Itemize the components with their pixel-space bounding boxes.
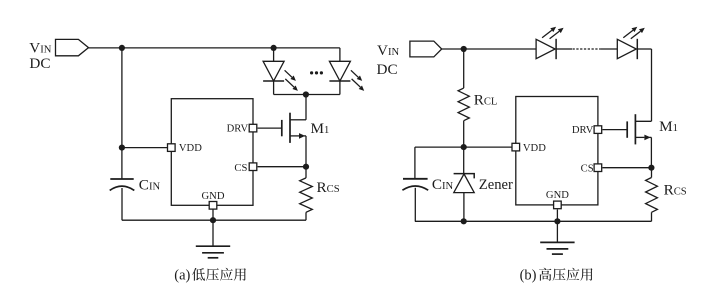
wire to ground symbol (b) bbox=[556, 221, 558, 242]
capacitor CIN (b) bbox=[402, 179, 428, 190]
pin CS (b) bbox=[594, 164, 602, 172]
transistor M1 (a) source arrow bbox=[290, 133, 305, 139]
transistor M1 (b) gate bar bbox=[626, 121, 628, 137]
svg-text:(a): (a) bbox=[174, 268, 190, 284]
transistor M1 (b) source arrow bbox=[635, 135, 650, 141]
node CS junction (a) bbox=[303, 164, 309, 170]
wire LED D1 to bottom rail (a) bbox=[273, 81, 275, 95]
wire RCL to VDD rail (b) bbox=[463, 121, 465, 147]
node VDD junction (b) bbox=[461, 144, 467, 150]
svg-text:CS: CS bbox=[581, 164, 594, 175]
ground (a) bbox=[196, 246, 230, 258]
ellipsis dots more LEDs (a) bbox=[310, 71, 323, 74]
wire drain (a) bbox=[305, 95, 307, 120]
LED D1 (b) bbox=[536, 39, 556, 59]
pin VDD (b) bbox=[512, 143, 520, 151]
wire RCS to ground rail (b) bbox=[651, 212, 653, 221]
resistor RCL (b) bbox=[458, 88, 469, 121]
connector VIN DC (a) bbox=[56, 39, 89, 55]
pin DRV (a) bbox=[249, 124, 257, 132]
svg-text:GND: GND bbox=[546, 190, 569, 201]
svg-text:GND: GND bbox=[202, 191, 225, 202]
caption (a) 低压应用 bbox=[192, 268, 246, 281]
pin GND (b) bbox=[554, 201, 562, 209]
transistor M1 (b) channel bar bbox=[634, 114, 636, 144]
svg-text:DC: DC bbox=[29, 55, 50, 72]
wire CS (b) bbox=[602, 167, 651, 169]
wire ground rail (b) bbox=[415, 220, 652, 222]
LED D1 (a) light arrows bbox=[285, 70, 296, 81]
node VIN rail junction (b) bbox=[461, 46, 467, 52]
zener diode (b) bbox=[454, 174, 475, 193]
svg-text:DRV: DRV bbox=[227, 123, 249, 134]
wire RCS to ground rail (a) bbox=[305, 212, 307, 220]
ground (b) bbox=[540, 242, 574, 254]
transistor M1 (b) drain tap bbox=[635, 120, 651, 122]
wire to RCL (b) bbox=[463, 49, 465, 88]
wire DRV to gate (a) bbox=[258, 127, 282, 129]
wire CS (a) bbox=[258, 166, 306, 168]
wire to CIN (a) bbox=[121, 148, 123, 179]
node VDD junction (a) bbox=[119, 145, 125, 151]
wire source (b) bbox=[650, 137, 652, 167]
wire CIN to ground rail (a) bbox=[121, 188, 123, 220]
node ground junction (a) bbox=[210, 217, 216, 223]
node ground junction zener (b) bbox=[461, 218, 467, 224]
LED D1 (a) bbox=[263, 61, 284, 81]
LED D1 (b) light arrows bbox=[542, 27, 556, 38]
pin CS (a) bbox=[249, 163, 257, 171]
transistor M1 (a) gate bar bbox=[281, 120, 283, 136]
wire LED D2 to bottom rail (a) bbox=[339, 81, 341, 95]
svg-text:VDD: VDD bbox=[523, 143, 546, 154]
capacitor CIN (a) bbox=[110, 179, 135, 190]
controller IC U1 (b) bbox=[516, 97, 598, 205]
wire top rail (b) bbox=[442, 48, 536, 50]
wire LED bottom rail (a) bbox=[274, 94, 340, 96]
wire top rail corner to LED D2 (a) bbox=[339, 48, 341, 61]
node CS junction (b) bbox=[648, 165, 654, 171]
wire to CIN (b) bbox=[414, 147, 416, 179]
wire to ground symbol (a) bbox=[212, 220, 214, 246]
wire down to drain (b) bbox=[651, 49, 653, 121]
svg-text:Zener: Zener bbox=[479, 177, 513, 193]
wire LED D1 to dashed (b) bbox=[556, 48, 572, 50]
LED D2 (a) light arrows bbox=[351, 70, 362, 81]
wire ground rail (a) bbox=[122, 219, 306, 221]
op-amp/controller IC U1 (a) bbox=[171, 99, 253, 206]
wire source (a) bbox=[305, 136, 307, 167]
wire GND pin to rail (b) bbox=[556, 210, 558, 222]
pin GND (a) bbox=[209, 202, 217, 210]
transistor M1 (a) source tap bbox=[304, 135, 306, 137]
transistor M1 (b) source tap bbox=[649, 136, 651, 138]
LED D2 (b) bbox=[617, 39, 637, 59]
svg-text:DRV: DRV bbox=[572, 125, 594, 136]
wire to zener (b) bbox=[463, 147, 465, 174]
dashed wire LED string continues (b) bbox=[573, 48, 601, 50]
node ground junction (b) bbox=[554, 218, 560, 224]
resistor RCS (b) bbox=[646, 178, 658, 213]
transistor M1 (a) drain tap bbox=[290, 119, 306, 121]
wire left branch down (a) bbox=[121, 48, 123, 148]
svg-text:VDD: VDD bbox=[179, 143, 202, 154]
wire dashed to LED D2 (b) bbox=[601, 48, 618, 50]
wire VDD (a) bbox=[122, 147, 168, 149]
wire DRV to gate (b) bbox=[602, 129, 627, 131]
connector VIN DC (b) bbox=[410, 41, 442, 57]
caption (b) 高压应用 bbox=[539, 268, 593, 281]
wire GND pin to rail (a) bbox=[212, 209, 214, 220]
wire VDD rail (b) bbox=[415, 146, 513, 148]
svg-text:(b): (b) bbox=[520, 268, 537, 284]
LED D2 (b) light arrows bbox=[623, 27, 637, 38]
transistor M1 (a) channel bar bbox=[289, 113, 291, 143]
resistor RCS (a) bbox=[300, 178, 313, 212]
LED D2 (a) bbox=[329, 61, 350, 81]
pin VDD (a) bbox=[168, 144, 176, 152]
node VIN rail junction (a) bbox=[119, 45, 125, 51]
wire to RCS (a) bbox=[305, 167, 307, 178]
node LED string top (a) bbox=[271, 45, 277, 51]
wire LED D2 out (b) bbox=[637, 48, 651, 50]
wire to LED D1 (a) bbox=[273, 48, 275, 61]
node LED bottom junction (a) bbox=[303, 91, 309, 97]
pin DRV (b) bbox=[594, 126, 602, 134]
wire zener to ground rail (b) bbox=[463, 193, 465, 222]
wire to RCS (b) bbox=[651, 168, 653, 178]
wire top rail (a) bbox=[89, 47, 340, 49]
wire CIN to ground rail (b) bbox=[414, 188, 416, 222]
svg-text:CS: CS bbox=[234, 163, 247, 174]
svg-text:DC: DC bbox=[377, 61, 398, 78]
